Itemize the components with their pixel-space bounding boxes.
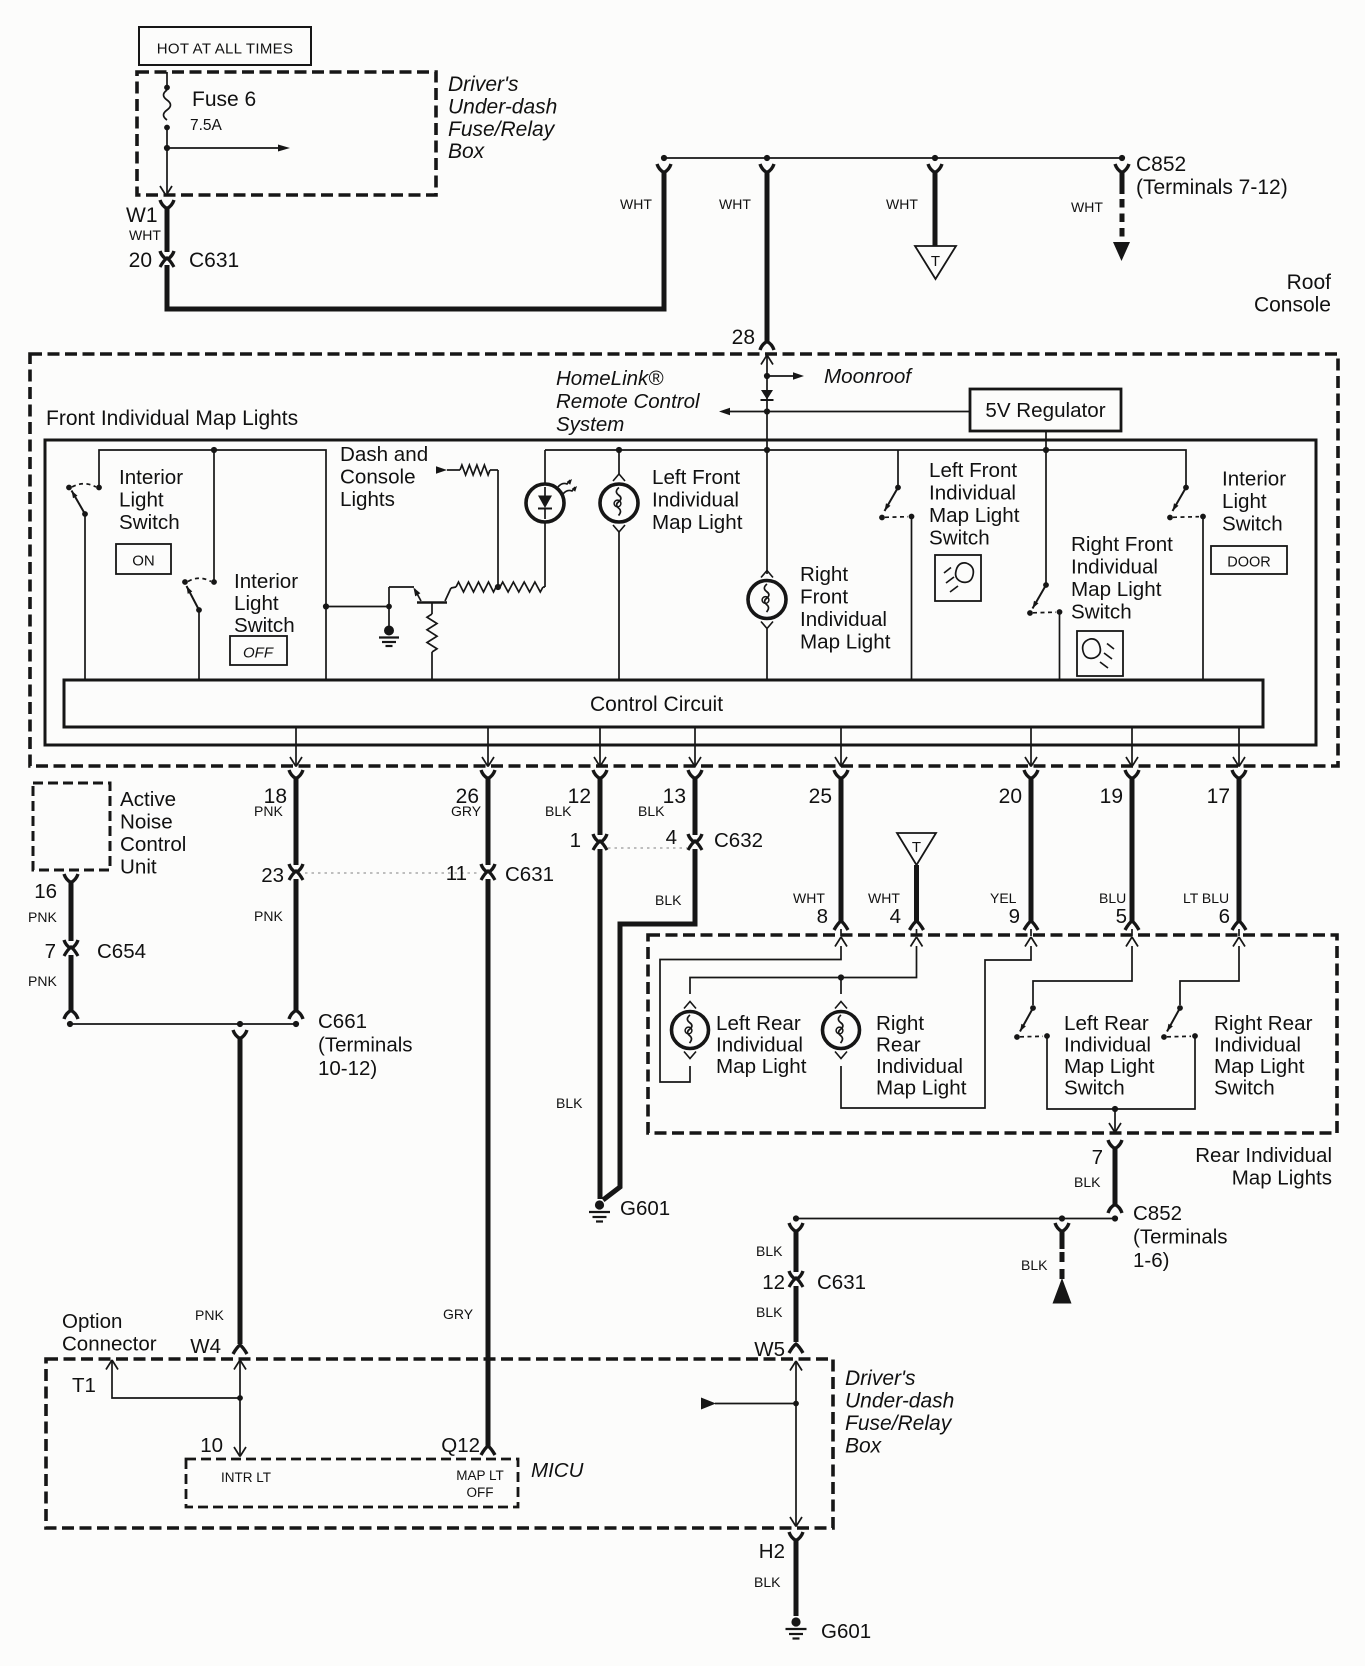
connector 6 rear harness xyxy=(1232,921,1246,930)
svg-text:Option: Option xyxy=(62,1310,122,1333)
wire 5V regulator output to HomeLink (left arrow) xyxy=(729,411,970,413)
wire 13 BLK bend to ground xyxy=(603,849,695,1200)
DOOR box xyxy=(1211,546,1287,574)
wire top distribution rail xyxy=(664,157,1122,159)
connector pin 19 roof console xyxy=(1125,770,1139,779)
svg-text:HOT AT ALL TIMES: HOT AT ALL TIMES xyxy=(157,41,294,58)
svg-text:Console: Console xyxy=(340,466,416,489)
connector 16 on ANC xyxy=(64,874,78,883)
svg-text:PNK: PNK xyxy=(254,803,283,819)
roof console box xyxy=(30,354,1338,766)
wire SW1 to control circuit xyxy=(84,514,86,680)
node junction top rail xyxy=(661,155,667,161)
svg-text:BLK: BLK xyxy=(1021,1257,1048,1273)
svg-text:C654: C654 xyxy=(97,940,146,963)
svg-text:(Terminals: (Terminals xyxy=(318,1034,413,1057)
connector pin 13 roof console xyxy=(688,770,702,779)
T terminal branch (rear) xyxy=(897,833,936,865)
node T branch xyxy=(932,155,938,161)
wire down to R1/R2 node xyxy=(497,470,499,587)
svg-text:MICU: MICU xyxy=(531,1459,584,1482)
svg-text:Individual: Individual xyxy=(800,608,887,631)
svg-text:T: T xyxy=(931,253,940,270)
svg-text:Left Front: Left Front xyxy=(652,466,740,489)
svg-text:System: System xyxy=(556,413,624,436)
faint mate line 1-4 xyxy=(608,847,687,849)
connector W5 xyxy=(789,1344,803,1353)
transistor Q1 xyxy=(388,587,390,607)
svg-text:Individual: Individual xyxy=(1071,556,1158,579)
svg-text:BLU: BLU xyxy=(1099,890,1126,906)
svg-text:BLK: BLK xyxy=(1074,1174,1101,1190)
svg-text:1: 1 xyxy=(570,829,581,852)
svg-text:Front Individual Map Lights: Front Individual Map Lights xyxy=(46,407,298,430)
svg-text:10-12): 10-12) xyxy=(318,1057,377,1080)
resistor R4 (base) xyxy=(431,603,433,615)
svg-text:Dash and: Dash and xyxy=(340,443,428,466)
svg-text:WHT: WHT xyxy=(793,890,825,906)
interior light switch SW1 (ON) xyxy=(66,485,72,491)
ON box xyxy=(116,544,171,574)
svg-text:BLK: BLK xyxy=(754,1574,781,1590)
svg-text:17: 17 xyxy=(1207,785,1230,808)
svg-text:Right: Right xyxy=(876,1012,924,1035)
wire 26 GRY upper xyxy=(486,778,491,865)
node left front map light tap xyxy=(616,447,622,453)
wire drop from control circuit x=841 xyxy=(840,727,842,766)
svg-text:Individual: Individual xyxy=(1064,1034,1151,1057)
svg-text:C631: C631 xyxy=(189,249,239,272)
svg-text:WHT: WHT xyxy=(719,196,751,212)
svg-text:Switch: Switch xyxy=(1222,513,1283,536)
switch right front map light switch xyxy=(1043,447,1049,453)
wire power rail (right section) xyxy=(545,450,1186,487)
connector 9 rear harness xyxy=(1024,921,1038,930)
wire WHT 28 xyxy=(765,172,770,342)
svg-text:Roof: Roof xyxy=(1287,271,1332,294)
bulb right rear individual map light xyxy=(823,1012,860,1049)
svg-text:Individual: Individual xyxy=(876,1055,963,1078)
svg-text:T: T xyxy=(912,839,921,856)
wire 25 WHT xyxy=(839,778,844,921)
wire 18 PNK lower xyxy=(294,879,299,1011)
svg-text:C852: C852 xyxy=(1136,153,1186,176)
node moonroof branch xyxy=(764,373,770,379)
svg-text:Active: Active xyxy=(120,788,176,811)
svg-text:Box: Box xyxy=(845,1435,883,1458)
wire 19 BLU xyxy=(1130,778,1135,921)
svg-text:Under-dash: Under-dash xyxy=(845,1390,954,1413)
OFF box xyxy=(230,636,287,665)
svg-text:Switch: Switch xyxy=(1064,1077,1125,1100)
svg-text:Map Lights: Map Lights xyxy=(1232,1167,1332,1190)
wire W4 entry to MICU xyxy=(234,1360,246,1370)
svg-text:Driver's: Driver's xyxy=(845,1367,916,1390)
connector pin 12 roof console xyxy=(593,770,607,779)
svg-text:C852: C852 xyxy=(1133,1202,1182,1225)
active noise control unit box xyxy=(33,783,110,870)
svg-text:WHT: WHT xyxy=(886,196,918,212)
wire drop from control circuit x=1132 xyxy=(1131,727,1133,766)
switch left rear map light switch xyxy=(1030,1005,1036,1011)
wire branch with right arrow xyxy=(715,1403,796,1405)
svg-text:11: 11 xyxy=(446,862,467,885)
wire rear switch common exit xyxy=(1114,1109,1116,1132)
svg-text:C632: C632 xyxy=(714,829,763,852)
svg-text:WHT: WHT xyxy=(620,196,652,212)
svg-text:PNK: PNK xyxy=(28,973,57,989)
wire entering rear box x=841 xyxy=(840,929,842,936)
svg-text:BLK: BLK xyxy=(638,803,665,819)
svg-text:ON: ON xyxy=(132,553,155,570)
svg-text:Map Light: Map Light xyxy=(876,1077,967,1100)
svg-text:Box: Box xyxy=(448,140,486,163)
svg-text:BLK: BLK xyxy=(756,1243,783,1259)
wire 9 from right rear bulb xyxy=(841,946,1031,1108)
svg-text:5V Regulator: 5V Regulator xyxy=(985,399,1105,422)
svg-text:7: 7 xyxy=(1092,1146,1103,1169)
wire drop from control circuit x=600 xyxy=(599,727,601,766)
node wire 28 tap xyxy=(764,155,770,161)
svg-text:BLK: BLK xyxy=(756,1304,783,1320)
wire T1 entry xyxy=(106,1360,118,1370)
wire bulb to control circuit xyxy=(618,532,620,680)
svg-text:DOOR: DOOR xyxy=(1227,555,1271,571)
wire WHT to C852 (terminals 7-12), dashed continuation xyxy=(1120,172,1125,194)
svg-text:PNK: PNK xyxy=(195,1307,224,1323)
connector 7 below rear box xyxy=(1108,1140,1122,1149)
connector 23 (C661 side) xyxy=(289,864,303,873)
wire regulator to rail xyxy=(1045,431,1047,450)
svg-text:Map Light: Map Light xyxy=(1071,578,1162,601)
svg-text:Switch: Switch xyxy=(1214,1077,1275,1100)
resistor R2 xyxy=(500,582,543,592)
svg-text:INTR LT: INTR LT xyxy=(221,1470,271,1485)
wire BLK dashed stub at C852 xyxy=(1055,1223,1069,1232)
icon map light (right front switch) xyxy=(1077,631,1123,676)
wire drop from control circuit x=1239 xyxy=(1238,727,1240,766)
wire 7 BLK xyxy=(1113,1148,1118,1205)
svg-text:Remote Control: Remote Control xyxy=(556,390,701,413)
icon map light (left front switch) xyxy=(935,555,981,601)
svg-text:Fuse/Relay: Fuse/Relay xyxy=(845,1412,953,1435)
resistor R1 xyxy=(456,582,496,592)
svg-text:Individual: Individual xyxy=(652,489,739,512)
wire C661 bus xyxy=(70,1023,297,1025)
light rays xyxy=(558,480,570,487)
wire 13 BLK upper xyxy=(693,778,698,835)
svg-text:Switch: Switch xyxy=(929,527,990,550)
svg-text:Switch: Switch xyxy=(119,511,180,534)
wire 20 YEL xyxy=(1029,778,1034,921)
svg-text:BLK: BLK xyxy=(545,803,572,819)
svg-text:Individual: Individual xyxy=(1214,1034,1301,1057)
svg-text:Moonroof: Moonroof xyxy=(824,365,913,388)
svg-text:Interior: Interior xyxy=(234,570,298,593)
wire PNK to option connector xyxy=(238,1038,243,1344)
svg-text:4: 4 xyxy=(666,826,677,849)
svg-text:WHT: WHT xyxy=(868,890,900,906)
svg-text:Front: Front xyxy=(800,586,848,609)
wire fuse output arrow (inside box) xyxy=(164,145,170,151)
svg-text:7.5A: 7.5A xyxy=(190,117,223,134)
connector 5 rear harness xyxy=(1125,921,1139,930)
svg-text:(Terminals: (Terminals xyxy=(1133,1226,1228,1249)
svg-text:HomeLink®: HomeLink® xyxy=(556,367,664,390)
wire WHT from T xyxy=(914,865,919,921)
bulb left front individual map light xyxy=(618,450,620,474)
svg-text:G601: G601 xyxy=(821,1620,871,1643)
faint mate line 23-11 xyxy=(305,872,478,874)
wire drop from control circuit x=1031 xyxy=(1030,727,1032,766)
wire T1 to W4 node xyxy=(112,1360,240,1398)
svg-text:4: 4 xyxy=(890,905,901,928)
front map lights unit box xyxy=(45,440,1316,745)
T terminal symbol xyxy=(915,246,956,279)
svg-text:Lights: Lights xyxy=(340,488,395,511)
svg-text:Map Light: Map Light xyxy=(800,631,891,654)
wire WHT from C631 to roof console feed xyxy=(167,171,664,309)
wire 18 PNK upper xyxy=(294,778,299,865)
wire entering rear box x=1239 xyxy=(1238,929,1240,936)
svg-text:MAP LT: MAP LT xyxy=(456,1468,504,1483)
svg-text:12: 12 xyxy=(762,1271,785,1294)
node rear switch common xyxy=(1112,1106,1118,1112)
svg-text:C631: C631 xyxy=(817,1271,866,1294)
svg-text:LT BLU: LT BLU xyxy=(1183,890,1229,906)
wire PNK ANC upper xyxy=(69,882,74,941)
svg-text:6: 6 xyxy=(1219,905,1230,928)
svg-text:WHT: WHT xyxy=(1071,199,1103,215)
svg-text:Rear Individual: Rear Individual xyxy=(1195,1144,1332,1167)
connector Q12 xyxy=(481,1446,495,1455)
svg-text:Left Front: Left Front xyxy=(929,459,1017,482)
svg-text:Left Rear: Left Rear xyxy=(1064,1012,1149,1035)
wire to moonroof xyxy=(767,375,793,377)
wire WHT to T xyxy=(933,172,938,246)
svg-text:Left Rear: Left Rear xyxy=(716,1012,801,1035)
svg-text:YEL: YEL xyxy=(990,890,1017,906)
wire W5 BLK lower xyxy=(794,1286,799,1342)
svg-text:Unit: Unit xyxy=(120,856,157,879)
svg-text:Map Light: Map Light xyxy=(716,1055,807,1078)
svg-text:Right Front: Right Front xyxy=(1071,533,1173,556)
driver's under-dash fuse/relay box (bottom) xyxy=(46,1359,833,1528)
svg-text:W4: W4 xyxy=(190,1335,221,1358)
node ground branch xyxy=(386,604,392,610)
svg-text:Fuse/Relay: Fuse/Relay xyxy=(448,118,556,141)
wire 12 BLK upper xyxy=(598,778,603,835)
svg-text:Map Light: Map Light xyxy=(929,504,1020,527)
svg-text:Interior: Interior xyxy=(119,466,183,489)
wire 5 to left rear switch xyxy=(1033,946,1132,1005)
bulb left rear individual map light xyxy=(672,1012,709,1049)
svg-text:Switch: Switch xyxy=(234,614,295,637)
svg-text:Under-dash: Under-dash xyxy=(448,96,557,119)
svg-text:Map Light: Map Light xyxy=(1064,1055,1155,1078)
svg-text:7: 7 xyxy=(45,940,56,963)
svg-text:Individual: Individual xyxy=(716,1034,803,1057)
svg-text:W1: W1 xyxy=(126,204,158,227)
svg-text:16: 16 xyxy=(34,880,57,903)
wire 4 feed to rear bulbs xyxy=(690,946,917,994)
svg-text:G601: G601 xyxy=(620,1197,670,1220)
connector on option wire xyxy=(233,1030,247,1039)
svg-text:C631: C631 xyxy=(505,863,554,886)
node W5 branch xyxy=(793,1401,799,1407)
5V Regulator box xyxy=(970,389,1121,431)
svg-text:20: 20 xyxy=(999,785,1022,808)
wire dash/console lights feed with arrow xyxy=(436,466,447,474)
wire drop from control circuit x=296 xyxy=(295,727,297,766)
svg-text:10: 10 xyxy=(200,1434,223,1457)
connector 8 rear harness xyxy=(834,921,848,930)
svg-text:(Terminals 7-12): (Terminals 7-12) xyxy=(1136,176,1288,199)
node rear feed split xyxy=(838,974,844,980)
svg-text:Switch: Switch xyxy=(1071,601,1132,624)
svg-text:Light: Light xyxy=(234,592,279,615)
svg-text:28: 28 xyxy=(732,326,755,349)
wire W5 exit xyxy=(790,1517,802,1527)
svg-text:OFF: OFF xyxy=(467,1485,494,1500)
wire 17 LT BLU xyxy=(1237,778,1242,921)
svg-text:25: 25 xyxy=(809,785,832,808)
connector pin 20 roof console xyxy=(1024,770,1038,779)
svg-text:BLK: BLK xyxy=(655,892,682,908)
fuse F6 7.5A xyxy=(166,72,168,85)
connector pin 25 roof console xyxy=(834,770,848,779)
wire entering rear box x=1031 xyxy=(1030,929,1032,936)
svg-text:Rear: Rear xyxy=(876,1034,921,1057)
connector 1 C632 xyxy=(593,834,607,843)
connector 11 C631 xyxy=(481,864,495,873)
wire drop from control circuit x=488 xyxy=(487,727,489,766)
svg-text:1-6): 1-6) xyxy=(1133,1249,1169,1272)
svg-text:H2: H2 xyxy=(759,1540,785,1563)
connector 12 C631 xyxy=(789,1271,803,1280)
connector W1 xyxy=(160,200,174,209)
photo sensor LED U2 xyxy=(544,450,546,484)
node C852 tap xyxy=(1119,155,1125,161)
svg-text:Fuse 6: Fuse 6 xyxy=(192,88,256,111)
svg-text:Control: Control xyxy=(120,833,186,856)
svg-text:T1: T1 xyxy=(72,1374,96,1397)
wire to switch2 right contact xyxy=(213,450,215,582)
connector pin 18 roof console xyxy=(289,770,303,779)
switch interior light switch (DOOR) xyxy=(1183,485,1189,491)
wire 28 entering roof console xyxy=(761,355,773,365)
svg-text:Right: Right xyxy=(800,563,848,586)
svg-text:OFF: OFF xyxy=(243,645,274,662)
wire W1 WHT xyxy=(165,207,170,252)
svg-text:19: 19 xyxy=(1100,785,1123,808)
svg-text:C661: C661 xyxy=(318,1010,367,1033)
ground G601 (under-dash) xyxy=(791,1617,800,1626)
svg-text:9: 9 xyxy=(1009,905,1020,928)
interior light switch SW2 (OFF) xyxy=(182,579,188,585)
wire H2 BLK xyxy=(794,1540,799,1616)
fuse/relay box (driver under-dash, top) xyxy=(137,72,436,195)
svg-text:GRY: GRY xyxy=(451,803,482,819)
svg-text:8: 8 xyxy=(817,905,828,928)
wire entering rear box x=916.5 xyxy=(916,929,918,936)
wire drop from control circuit x=695 xyxy=(694,727,696,766)
svg-text:Light: Light xyxy=(1222,490,1267,513)
wire PNK ANC lower xyxy=(69,955,74,1011)
wire 26 GRY long run to MICU xyxy=(486,879,491,1447)
wire 12 BLK to ground xyxy=(598,849,603,1199)
node regulator line crossing xyxy=(764,408,770,414)
svg-text:Light: Light xyxy=(119,489,164,512)
connector pin 26 roof console xyxy=(481,770,495,779)
wire switch sense rail (left) xyxy=(99,450,326,607)
svg-text:13: 13 xyxy=(663,785,686,808)
diode D1 xyxy=(761,390,773,400)
node base line junction xyxy=(323,603,329,609)
switch left front map light switch xyxy=(897,450,899,487)
switch right rear map light switch xyxy=(1177,1005,1183,1011)
wire C852 bus xyxy=(796,1218,1115,1220)
svg-text:PNK: PNK xyxy=(254,908,283,924)
wire fuse down to box edge xyxy=(166,148,168,193)
svg-text:Individual: Individual xyxy=(929,482,1016,505)
svg-text:Control Circuit: Control Circuit xyxy=(590,693,723,716)
ground G601 (map lights) xyxy=(595,1200,604,1209)
svg-text:GRY: GRY xyxy=(443,1306,474,1322)
svg-text:Driver's: Driver's xyxy=(448,73,519,96)
svg-text:PNK: PNK xyxy=(28,909,57,925)
connector 20 C631 xyxy=(160,251,174,260)
wire 6 to right rear switch xyxy=(1180,946,1239,1005)
node homelink rail junction xyxy=(764,447,770,453)
bulb right front individual map light xyxy=(766,450,768,574)
wire W5 BLK upper xyxy=(789,1223,803,1232)
connector 4 rear harness xyxy=(910,921,924,930)
wire SW2 to control circuit xyxy=(198,610,200,680)
svg-text:5: 5 xyxy=(1116,905,1127,928)
svg-text:BLK: BLK xyxy=(556,1095,583,1111)
resistor R3 xyxy=(460,465,490,475)
connector W4 xyxy=(233,1345,247,1354)
rear individual map lights box xyxy=(648,935,1337,1133)
chassis ground (transistor bias) xyxy=(388,607,390,627)
wire entering rear box x=1132 xyxy=(1131,929,1133,936)
connector pin 17 roof console xyxy=(1232,770,1246,779)
svg-text:Right Rear: Right Rear xyxy=(1214,1012,1313,1035)
wire W5 entry xyxy=(790,1361,802,1371)
connector 7 C654 xyxy=(64,940,78,949)
svg-text:Connector: Connector xyxy=(62,1333,157,1356)
svg-text:Noise: Noise xyxy=(120,811,173,834)
MICU box xyxy=(186,1459,518,1507)
svg-text:Q12: Q12 xyxy=(441,1434,480,1457)
label HOT AT ALL TIMES box xyxy=(139,27,311,65)
connector 4 C632 xyxy=(688,834,702,843)
wire sensor to R2 xyxy=(544,522,546,587)
svg-text:Map Light: Map Light xyxy=(1214,1055,1305,1078)
svg-text:20: 20 xyxy=(129,249,152,272)
svg-text:Interior: Interior xyxy=(1222,468,1286,491)
control circuit box xyxy=(64,680,1263,727)
svg-text:Map Light: Map Light xyxy=(652,511,743,534)
svg-text:Console: Console xyxy=(1254,294,1331,317)
wire 8 to left rear bulb return xyxy=(660,946,841,1082)
node R1/R2 junction xyxy=(495,584,501,590)
svg-text:WHT: WHT xyxy=(129,227,161,243)
svg-text:23: 23 xyxy=(261,864,284,887)
